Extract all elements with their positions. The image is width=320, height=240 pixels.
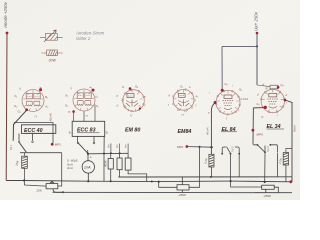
- node: dot at (199.5,146.8): [198, 146, 200, 148]
- node: junction dot meter top: [87, 153, 89, 155]
- wire: MP2 horizontal to x=213: [188, 146, 213, 149]
- wire: S3 output x=230.6 to rail L: [230, 154, 232, 181]
- svg-text:1mA: 1mA: [84, 165, 91, 169]
- box around ECC 40 label: [22, 125, 56, 134]
- tube V6 top pin red dot: [277, 86, 280, 89]
- svg-text:G₂: G₂: [281, 83, 284, 87]
- node: red dot right end of rail L: [289, 180, 292, 183]
- svg-text:+: +: [90, 156, 92, 160]
- wire: Rb bottom to rail U: [119, 170, 121, 177]
- svg-text:MP3: MP3: [257, 133, 264, 137]
- node: supply terminal dot right: [256, 32, 259, 35]
- svg-text:f f: f f: [182, 113, 184, 117]
- wire: rail M y=152.7 (left): [20, 152, 62, 154]
- svg-text:EL 84: EL 84: [222, 127, 236, 133]
- box around ECC 83 label: [72, 121, 105, 136]
- wire: stubs bus to resistor tops: [111, 153, 128, 158]
- svg-text:MP2: MP2: [177, 145, 184, 149]
- node: supply terminal dot left: [6, 32, 9, 35]
- resistor Rb vertical box: [117, 158, 122, 170]
- svg-text:K₁: K₁: [96, 104, 99, 108]
- wire: rail U y=177: [118, 176, 292, 178]
- svg-text:f f: f f: [35, 115, 37, 119]
- svg-text:ü₂: ü₂: [96, 95, 99, 99]
- SECTION: top-right supply: [222, 11, 278, 89]
- tube V5 pin labels: [208, 82, 248, 121]
- svg-text:400K: 400K: [104, 160, 108, 167]
- svg-text:f₁: f₁: [70, 86, 72, 90]
- svg-text:K₁: K₁: [15, 94, 18, 98]
- wire: Ra bottom to rail L: [110, 169, 112, 181]
- svg-text:G: G: [122, 85, 124, 89]
- svg-text:G₁: G₁: [14, 104, 17, 108]
- svg-text:Gitter 2: Gitter 2: [76, 36, 91, 41]
- resistor R 25K vertical (hatched): [22, 153, 28, 180]
- svg-text:a₂: a₂: [90, 86, 93, 89]
- tube V6 pin labels: [257, 83, 288, 119]
- wire: right supply vertical x=257: [256, 34, 258, 85]
- tube V5 rim pins: [215, 90, 241, 115]
- svg-text:MP1: MP1: [55, 143, 62, 147]
- svg-text:a|f: a|f: [106, 131, 109, 134]
- svg-text:EM 80: EM 80: [125, 128, 140, 134]
- svg-text:K₁: K₁: [66, 94, 69, 98]
- wire: 2.2K(right) bottom to rail L: [285, 165, 287, 182]
- tube V6 right pin red dot: [284, 99, 287, 102]
- tube V3 rim pins: [122, 89, 145, 112]
- tube V3 pin red dot bottom: [139, 107, 141, 109]
- potentiometer P1 25K (left): [46, 181, 63, 192]
- resistor R 2.2K below EL34 (hatched): [283, 153, 288, 166]
- node dot rail L x=264.7: [264, 181, 266, 183]
- rotated tiny labels above resistors: [108, 145, 128, 148]
- wire: resistor top bus y=153.5: [88, 152, 128, 155]
- tube V5 EL84 envelope: [216, 90, 240, 114]
- tube V6 rim pins: [260, 88, 285, 113]
- svg-text:K: K: [169, 94, 171, 98]
- tube V3 pin red dot top-left: [129, 87, 132, 90]
- tube V2 pin red dot bottom-left: [72, 110, 75, 113]
- svg-text:3m: 3m: [108, 145, 111, 148]
- node: dot where ECC83 tail crosses bus: [103, 153, 105, 155]
- tube V2 pin labels: [65, 86, 99, 118]
- switch S2 blade: [78, 143, 88, 153]
- svg-text:K₂: K₂: [46, 105, 49, 109]
- svg-text:25K: 25K: [36, 189, 43, 193]
- node: dot rail U x=210: [210, 176, 212, 178]
- tube V1 ECC40 envelope: [22, 90, 44, 112]
- svg-text:a₁: a₁: [68, 111, 70, 114]
- svg-text:3mA: 3mA: [67, 166, 73, 170]
- svg-text:-250K: -250K: [263, 194, 272, 198]
- svg-text:f f: f f: [86, 114, 88, 118]
- svg-text:G₁: G₁: [65, 104, 68, 108]
- svg-text:G₂: G₂: [225, 82, 228, 86]
- tube V4 pin labels: [168, 85, 198, 118]
- resistor R 2.2K below EL84 (hatched): [209, 154, 214, 167]
- tube V4 rim pins: [172, 89, 195, 112]
- tube V3 EM80 envelope: [122, 90, 145, 112]
- switch S2 to meter junction wire: [87, 150, 89, 154]
- wire: V1 horizontal y=122.6 and drop to MP1: [14, 123, 53, 143]
- tube V2 ECC83 envelope: [73, 89, 95, 111]
- svg-text:EM84: EM84: [178, 129, 192, 135]
- resistor legend R-30W: [41, 50, 62, 56]
- node: dot rail L x=158.7: [158, 181, 160, 183]
- tube V1 pin labels: [14, 87, 48, 119]
- tube V5 top pin red dot g2: [221, 89, 224, 92]
- svg-text:40 mA: 40 mA: [206, 127, 210, 135]
- potentiometer P2 250K (center): [177, 177, 189, 193]
- switch group S4 below EL34: [253, 143, 278, 152]
- tube V6 bottom-left pin red dot: [264, 106, 267, 109]
- SECTION: top-left supply: [3, 1, 9, 180]
- svg-text:a₁: a₁: [196, 95, 198, 98]
- svg-text:f₁: f₁: [19, 87, 21, 91]
- tube V3 pin labels: [116, 85, 146, 118]
- node: junction dot at (211.4,147.2): [210, 146, 212, 148]
- tube V6 EL34 envelope: [261, 89, 284, 112]
- svg-text:K: K: [263, 83, 265, 87]
- resistor: EL34 grid-2 stopper (small box at tube top): [257, 85, 278, 89]
- wire: S4 output x=277.5 to rail U: [277, 153, 279, 177]
- svg-text:Tal 1: Tal 1: [9, 144, 13, 150]
- resistor Rc vertical box: [125, 158, 131, 170]
- wire: stubs from box1 bottom to switch S1: [19, 134, 33, 141]
- wire: vertical x=61.7 from rail M down to y=186: [58, 153, 62, 186]
- wire: vertical x=222 down to EL84 top pin: [221, 46, 223, 89]
- node MP2 red dot: [186, 145, 189, 148]
- svg-text:G₁: G₁: [239, 88, 242, 92]
- wire: stubs from EM80 down to bus: [111, 144, 128, 154]
- wire: Rc bottom jog: [128, 170, 147, 181]
- svg-text:K∧G3: K∧G3: [241, 97, 249, 101]
- tube V1 pin red dot G1: [25, 108, 28, 111]
- node: dot rail L at x=24: [23, 179, 25, 181]
- wire: rail B y=192.5: [53, 191, 293, 193]
- wire: horizontal y=46.4 to x=222: [222, 45, 257, 47]
- svg-text:A[1mA]: A[1mA]: [49, 113, 53, 123]
- wire: ECC83 box tail x=104 down to rail L: [103, 136, 105, 181]
- wire: stubs from box2 bottom to switch S2: [78, 136, 95, 142]
- node: dot at (63,192.3): [62, 191, 64, 193]
- svg-text:Ua+ 250v: Ua+ 250v: [254, 11, 259, 31]
- node dot rail L x=230.6: [230, 180, 232, 182]
- wire: vertical x=199.5 down to pot P2 right lead: [189, 147, 200, 188]
- svg-text:R: R: [266, 87, 268, 91]
- svg-text:B₂: B₂: [45, 95, 48, 99]
- switch S1 blade: [20, 143, 27, 152]
- wire: drop from dot24 to y=185 then right to pot P1: [24, 181, 46, 187]
- node: junction at (257,46): [256, 45, 258, 47]
- wire: S4 output x=265 to rail L: [264, 153, 266, 183]
- svg-text:G₁: G₁: [257, 102, 260, 106]
- wire: drop from dot230 to y=187 then right to pot P3: [231, 181, 262, 187]
- meter range text block: [67, 159, 78, 171]
- svg-text:30W: 30W: [49, 59, 57, 63]
- SECTION: tubes: [9, 82, 288, 154]
- node: dot rail L x=151.8: [151, 181, 153, 183]
- svg-text:a₁: a₁: [261, 116, 263, 119]
- wire: S3 output x=239.2 to rail U: [238, 154, 240, 177]
- wire: V6 bottom-left pin down to MP3: [253, 108, 265, 143]
- switch group S3 below EL84: [222, 147, 239, 154]
- svg-text:a₂: a₂: [40, 87, 43, 90]
- tube V4 EM84 envelope: [173, 89, 194, 110]
- svg-text:50mA: 50mA: [293, 125, 297, 132]
- node MP3 red dot: [252, 129, 255, 132]
- svg-text:Tal 3: Tal 3: [266, 146, 270, 152]
- svg-text:G₄: G₄: [135, 85, 138, 89]
- svg-text:Anode +250v: Anode +250v: [3, 1, 8, 29]
- node dots on bus: [110, 152, 112, 154]
- tube V2 pin red dot a2: [92, 89, 95, 92]
- wire: V2 pin stubs into box2: [74, 105, 95, 122]
- node: meter bottom dot on rail L: [87, 180, 89, 182]
- SECTION: legend: [40, 30, 105, 63]
- svg-text:4m: 4m: [125, 145, 128, 148]
- svg-text:G₁: G₁: [18, 110, 21, 114]
- wire: V5 left pin down to junction x=211.4: [211, 103, 215, 154]
- node MP1 red dot: [51, 143, 54, 146]
- svg-text:Tal 2: Tal 2: [231, 146, 235, 152]
- svg-text:3m: 3m: [116, 145, 119, 148]
- tube V5 left pin red dot: [214, 101, 217, 104]
- svg-text:G₁: G₁: [180, 85, 183, 89]
- meter M1 1mA: [82, 154, 94, 181]
- wire: V1 G1 diagonal down-left: [13, 110, 26, 141]
- wire: V6 right pin to x=292 vertical: [285, 100, 292, 182]
- wire: drop from dot158 to pot P2 left lead: [159, 182, 177, 188]
- potentiometer P3 250K (right): [262, 185, 279, 193]
- wire: left supply vertical: [5, 34, 8, 181]
- SECTION: bottom network: [6, 100, 296, 198]
- tube V1 pin red dot A2: [39, 88, 42, 91]
- wire: 2.2K(right) top jog to x=292: [286, 149, 292, 153]
- resistor Ra 400K vertical box: [108, 159, 113, 170]
- resistor legend R-var (anode current shunt, variable): [40, 30, 63, 42]
- svg-text:a|f: a|f: [69, 131, 72, 134]
- svg-text:K: K: [117, 94, 119, 98]
- wire: 2.2K bottom to rail U: [210, 167, 212, 177]
- wire: rail L y~181 full width: [6, 181, 291, 182]
- svg-text:f f: f f: [130, 114, 132, 118]
- svg-text:-250K: -250K: [178, 193, 187, 197]
